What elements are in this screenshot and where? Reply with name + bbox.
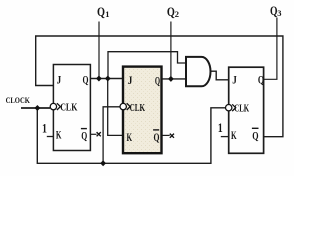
wire: clock bottom rail to FF3 CLK (37, 108, 225, 164)
svg-text:1: 1 (42, 121, 47, 135)
svg-text:J: J (57, 73, 62, 87)
wire: Q1bar stub (90, 133, 96, 135)
flip-flop U2 box (shaded) (123, 67, 162, 154)
svg-text:CLOCK: CLOCK (6, 95, 31, 105)
wire: K3 stub (logic 1) (221, 136, 229, 138)
svg-text:Q: Q (97, 4, 105, 19)
node: bottom rail junction (100, 160, 106, 166)
U3 CLK wedge (232, 104, 236, 111)
svg-text:Q: Q (252, 129, 258, 143)
U1 CLK wedge (57, 103, 61, 110)
wire: Q1 to J2 (90, 78, 123, 80)
svg-text:J: J (232, 73, 237, 87)
flip-flop U3 box (229, 67, 264, 153)
svg-text:Q: Q (155, 74, 160, 88)
wire: feedback Q3bar to J1 (top rail) (36, 36, 283, 137)
svg-text:Q: Q (81, 129, 87, 143)
svg-text:CLK: CLK (130, 102, 146, 114)
AND gate U4 (186, 57, 211, 86)
wire: Q1 to AND gate top input (108, 52, 185, 79)
svg-text:Q: Q (258, 73, 264, 87)
svg-text:CLK: CLK (60, 102, 78, 114)
svg-text:Q: Q (83, 73, 89, 87)
node: Q1 junction A (96, 76, 102, 82)
node: Q2 junction (168, 76, 174, 82)
U2 CLK bubble (120, 103, 126, 109)
wire: Q2 to AND gate bottom input (162, 78, 186, 80)
wire: Q3 output to Q3 label (264, 18, 277, 80)
node: clock junction (35, 105, 41, 111)
svg-text:2: 2 (175, 9, 179, 19)
wire: CLOCK input (21, 107, 50, 109)
no-connect X on Q1bar (97, 132, 101, 136)
flip-flop U1 box (53, 65, 90, 151)
svg-text:K: K (231, 128, 237, 142)
svg-text:1: 1 (105, 9, 109, 19)
U3 CLK bubble (226, 105, 232, 111)
wire: K1 stub (logic 1) (47, 136, 54, 138)
wire: AND gate output to J3 (210, 71, 228, 80)
U1 CLK bubble (50, 103, 56, 109)
no-connect X on Q2bar (170, 134, 174, 138)
svg-text:Q: Q (167, 4, 175, 19)
wire: Q2bar stub (162, 134, 170, 136)
wire: Q1 down to K2 (108, 79, 123, 136)
svg-text:Q: Q (154, 130, 160, 144)
svg-text:J: J (128, 73, 133, 87)
svg-text:1: 1 (218, 121, 223, 135)
node: Q1 junction B (105, 76, 111, 82)
wire: Q1 label drop line (98, 22, 100, 79)
U2 CLK wedge (127, 103, 131, 110)
svg-text:K: K (127, 130, 133, 144)
svg-text:3: 3 (277, 8, 281, 18)
wire: Q2 label drop line (170, 22, 172, 79)
svg-text:CLK: CLK (234, 103, 249, 115)
svg-text:K: K (56, 128, 62, 142)
wire: bottom rail branch to FF2 CLK (103, 107, 119, 164)
